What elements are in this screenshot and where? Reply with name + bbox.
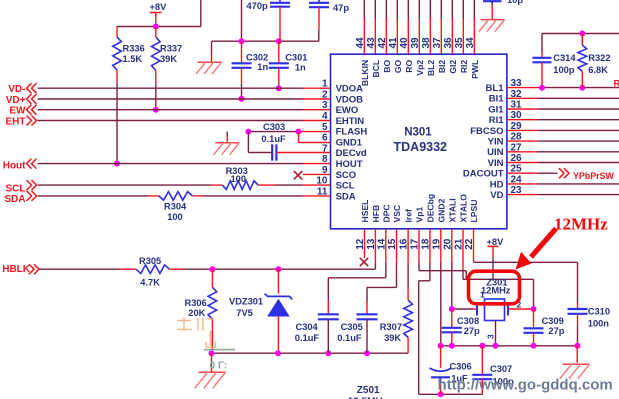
svg-text:YIN: YIN xyxy=(488,137,504,148)
svg-text:Vp2: Vp2 xyxy=(415,60,425,76)
svg-text:6: 6 xyxy=(322,133,328,144)
svg-text:SDA: SDA xyxy=(336,191,356,202)
svg-text:9: 9 xyxy=(322,165,328,176)
svg-text:2: 2 xyxy=(322,90,328,101)
svg-text:7: 7 xyxy=(322,143,328,154)
svg-text:EHT: EHT xyxy=(6,117,26,128)
svg-text:VDOB: VDOB xyxy=(336,94,364,105)
svg-text:BI1: BI1 xyxy=(489,94,505,105)
svg-text:GND2: GND2 xyxy=(436,198,446,222)
svg-text:1n: 1n xyxy=(257,62,268,72)
svg-text:+8V: +8V xyxy=(487,237,505,247)
svg-text:39K: 39K xyxy=(160,54,177,64)
svg-text:27p: 27p xyxy=(548,326,564,336)
svg-text:C304: C304 xyxy=(296,322,319,332)
svg-text:UIN: UIN xyxy=(487,147,504,158)
svg-text:VD+: VD+ xyxy=(6,95,26,106)
svg-text:0 Γ:: 0 Γ: xyxy=(210,361,228,372)
svg-text:EHTIN: EHTIN xyxy=(336,116,365,127)
svg-text:Hout: Hout xyxy=(3,160,26,171)
svg-text:LPSU: LPSU xyxy=(469,200,479,223)
svg-text:100: 100 xyxy=(167,212,183,222)
svg-text:SCL: SCL xyxy=(6,184,26,195)
svg-text:R336: R336 xyxy=(123,44,145,54)
svg-text:PWL: PWL xyxy=(470,60,480,79)
svg-text:1n: 1n xyxy=(295,63,306,73)
svg-text:XTALI: XTALI xyxy=(447,198,457,222)
svg-text:Iref: Iref xyxy=(404,209,414,223)
svg-text:TDA9332: TDA9332 xyxy=(394,140,448,154)
svg-text:7V5: 7V5 xyxy=(236,308,253,318)
svg-text:DECbg: DECbg xyxy=(425,194,435,223)
svg-text:27p: 27p xyxy=(464,326,480,336)
svg-text:C309: C309 xyxy=(542,316,564,326)
svg-text:0.1uF: 0.1uF xyxy=(337,333,362,343)
svg-text:HSEL: HSEL xyxy=(360,200,370,223)
svg-text:HOUT: HOUT xyxy=(336,159,363,170)
svg-text:HFB: HFB xyxy=(371,205,381,223)
svg-text:6.8K: 6.8K xyxy=(588,65,608,75)
svg-text:C314: C314 xyxy=(553,53,576,63)
svg-text:BI2: BI2 xyxy=(437,60,447,74)
svg-text:BL1: BL1 xyxy=(486,83,505,94)
svg-text:HD: HD xyxy=(490,179,504,190)
svg-text:VIN: VIN xyxy=(488,158,504,169)
svg-text:R337: R337 xyxy=(160,44,182,54)
svg-text:VDZ301: VDZ301 xyxy=(229,297,263,307)
svg-text:VD-: VD- xyxy=(8,84,25,95)
svg-text:10: 10 xyxy=(316,176,328,187)
svg-text:XTALO: XTALO xyxy=(459,194,469,223)
svg-text:12MHz: 12MHz xyxy=(481,286,511,296)
svg-text:YPbPrSW: YPbPrSW xyxy=(573,171,614,181)
svg-text:39K: 39K xyxy=(384,333,401,343)
svg-text:1.5K: 1.5K xyxy=(123,54,143,64)
svg-text:DACOUT: DACOUT xyxy=(463,169,504,180)
svg-text:FBCSO: FBCSO xyxy=(470,126,503,137)
svg-text:R304: R304 xyxy=(164,202,187,212)
svg-text:SDA: SDA xyxy=(4,194,25,205)
svg-text:5: 5 xyxy=(322,122,328,133)
svg-text:GO: GO xyxy=(393,59,403,73)
svg-text:DPC: DPC xyxy=(381,204,391,222)
svg-text:R322: R322 xyxy=(588,53,610,63)
svg-text:EW: EW xyxy=(9,106,26,117)
svg-text:VSC: VSC xyxy=(392,205,402,223)
svg-text:C307: C307 xyxy=(490,364,512,374)
svg-text:47p: 47p xyxy=(333,3,349,13)
svg-text:Vp1: Vp1 xyxy=(415,207,425,223)
svg-text:3: 3 xyxy=(322,100,328,111)
svg-text:GND1: GND1 xyxy=(336,138,363,149)
svg-text:RI1: RI1 xyxy=(489,115,505,126)
svg-text:HBLK: HBLK xyxy=(2,264,31,275)
svg-text:100: 100 xyxy=(231,174,247,184)
svg-text:R306: R306 xyxy=(185,298,207,308)
svg-text:12MHz: 12MHz xyxy=(554,215,608,234)
svg-text:Z501: Z501 xyxy=(357,385,380,396)
svg-text:http://www.go-gddq.com: http://www.go-gddq.com xyxy=(438,377,613,394)
svg-text:SCO: SCO xyxy=(336,170,357,181)
svg-text:C302: C302 xyxy=(246,52,268,62)
svg-text:3: 3 xyxy=(486,334,496,339)
svg-text:R305: R305 xyxy=(139,256,161,266)
svg-text:FLASH: FLASH xyxy=(336,127,368,138)
svg-text:20K: 20K xyxy=(188,308,205,318)
svg-text:+8V: +8V xyxy=(150,2,168,12)
svg-text:VD: VD xyxy=(490,190,503,201)
svg-text:4.7K: 4.7K xyxy=(140,278,160,288)
svg-text:470p: 470p xyxy=(247,1,269,11)
svg-text:C308: C308 xyxy=(457,316,479,326)
svg-text:DECvd: DECvd xyxy=(336,148,367,159)
svg-text:1: 1 xyxy=(322,79,328,90)
svg-text:C303: C303 xyxy=(263,122,285,132)
svg-text:RI2: RI2 xyxy=(459,60,469,74)
svg-text:0.1uF: 0.1uF xyxy=(261,134,286,144)
svg-text:8: 8 xyxy=(322,154,328,165)
svg-text:10p: 10p xyxy=(507,0,523,5)
svg-text:C301: C301 xyxy=(285,52,307,62)
svg-text:R307: R307 xyxy=(380,322,402,332)
svg-text:EWO: EWO xyxy=(336,105,359,116)
svg-text:C305: C305 xyxy=(341,322,363,332)
svg-text:0.1uF: 0.1uF xyxy=(295,333,320,343)
svg-text:BLKIN: BLKIN xyxy=(360,60,370,86)
svg-text:100n: 100n xyxy=(588,319,610,329)
svg-text:11: 11 xyxy=(317,186,328,197)
svg-text:SCL: SCL xyxy=(336,181,355,192)
svg-text:GI1: GI1 xyxy=(488,104,504,115)
svg-text:100p: 100p xyxy=(553,65,575,75)
svg-text:C306: C306 xyxy=(450,362,472,372)
svg-text:N301: N301 xyxy=(404,127,432,139)
svg-text:BCL: BCL xyxy=(371,60,381,78)
svg-text:BL2: BL2 xyxy=(426,60,436,76)
svg-text:RO: RO xyxy=(404,59,414,72)
svg-text:C310: C310 xyxy=(588,307,610,317)
svg-text:BO: BO xyxy=(382,59,392,72)
svg-text:GI2: GI2 xyxy=(448,60,458,74)
svg-text:4: 4 xyxy=(322,111,328,122)
svg-text:R3: R3 xyxy=(614,79,619,89)
